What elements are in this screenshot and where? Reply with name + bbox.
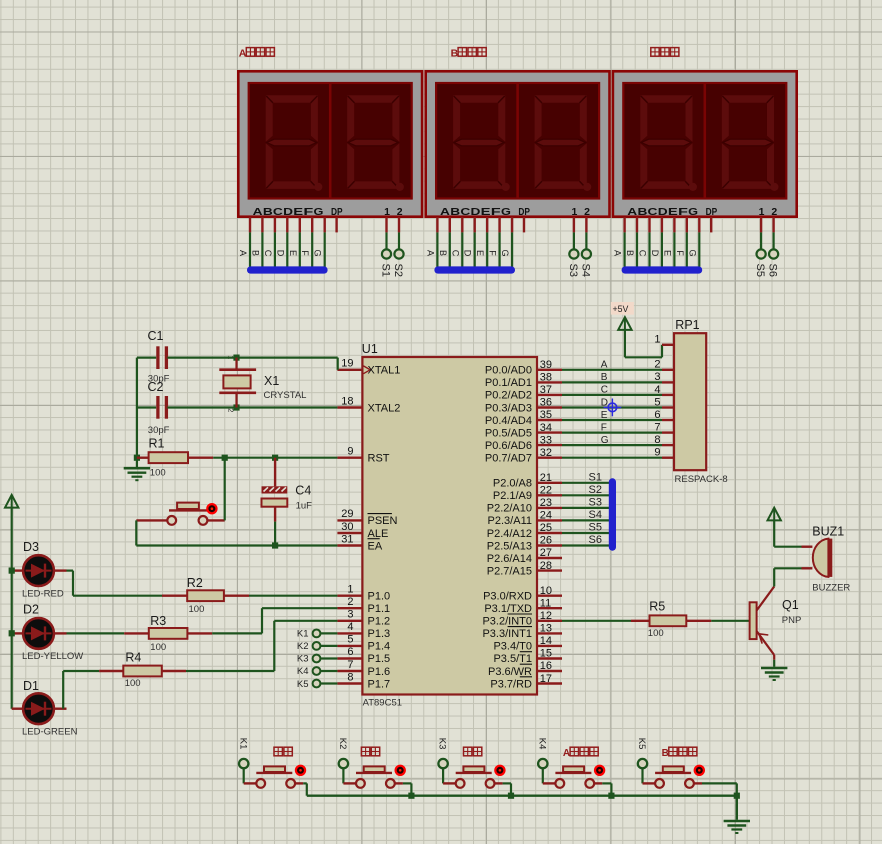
svg-text:K3: K3: [437, 738, 448, 750]
node K4 terminal: [297, 666, 338, 677]
wire RST net: [213, 455, 337, 461]
wires P0 bus to RP1 with net labels A-G: [562, 360, 662, 458]
node K2 terminal: [297, 641, 338, 652]
svg-text:P0.1/AD1: P0.1/AD1: [485, 377, 532, 389]
svg-text:C2: C2: [148, 380, 164, 394]
power +5V symbol: [611, 302, 662, 357]
op-amp U1 AT89C51 microcontroller: [337, 342, 562, 709]
svg-text:RST: RST: [368, 453, 390, 465]
svg-text:P3.5/T1: P3.5/T1: [493, 653, 532, 665]
svg-text:PSEN: PSEN: [368, 515, 398, 527]
wires P2.0-P2.5 S1-S6 to bus: [562, 471, 611, 546]
svg-text:17: 17: [540, 673, 552, 685]
capacitor C1 30pF: [148, 329, 170, 385]
svg-text:A: A: [563, 748, 570, 759]
svg-text:38: 38: [540, 372, 552, 384]
buzzer BUZ1: [802, 525, 851, 594]
svg-text:31: 31: [341, 533, 353, 545]
svg-text:26: 26: [540, 535, 552, 547]
svg-text:G: G: [601, 435, 609, 446]
svg-text:P3.2/INT0: P3.2/INT0: [482, 616, 532, 628]
svg-text:15: 15: [540, 648, 552, 660]
resistor R2 100: [162, 576, 249, 615]
wire XTAL1 net: [137, 355, 338, 370]
svg-text:D2: D2: [23, 603, 39, 617]
svg-text:K4: K4: [536, 738, 547, 750]
svg-text:8: 8: [347, 671, 353, 683]
svg-text:LED-GREEN: LED-GREEN: [22, 727, 78, 738]
svg-text:S4: S4: [580, 264, 592, 277]
push button K5 B队加分: [636, 738, 737, 796]
wire R4 to P1.2: [186, 621, 337, 671]
resistor R1 100: [137, 436, 213, 478]
svg-text:27: 27: [540, 547, 552, 559]
svg-text:10: 10: [540, 585, 552, 597]
svg-text:S1: S1: [589, 471, 602, 483]
svg-text:22: 22: [540, 485, 552, 497]
svg-text:C: C: [601, 385, 608, 396]
svg-text:S2: S2: [589, 484, 602, 496]
svg-text:XTAL1: XTAL1: [368, 365, 401, 377]
ground under Q1: [761, 660, 787, 680]
7-segment display A队成绩 display DS1: [238, 48, 422, 277]
svg-text:K1: K1: [237, 738, 248, 750]
svg-text:P2.1/A9: P2.1/A9: [493, 490, 532, 502]
svg-text:S1: S1: [380, 264, 392, 277]
svg-text:K2: K2: [337, 738, 348, 750]
LED D3 LED-RED: [12, 540, 67, 600]
svg-text:P3.4/T0: P3.4/T0: [493, 641, 532, 653]
svg-text:P3.0/RXD: P3.0/RXD: [483, 591, 532, 603]
svg-text:PNP: PNP: [782, 615, 802, 626]
svg-text:A: A: [601, 360, 608, 371]
svg-text:P1.6: P1.6: [368, 666, 391, 678]
svg-text:F: F: [601, 422, 607, 433]
svg-text:P3.3/INT1: P3.3/INT1: [482, 628, 532, 640]
svg-text:30: 30: [341, 521, 353, 533]
push button reset: [136, 503, 224, 525]
svg-text:S6: S6: [589, 534, 602, 546]
svg-text:23: 23: [540, 497, 552, 509]
svg-text:32: 32: [540, 447, 552, 459]
ground under R1: [124, 468, 150, 480]
svg-text:14: 14: [540, 635, 552, 647]
node K1 terminal: [297, 629, 338, 640]
wire R5 to Q1 base: [711, 620, 749, 622]
svg-text:29: 29: [341, 508, 353, 520]
svg-text:P0.4/AD4: P0.4/AD4: [485, 415, 532, 427]
svg-text:30pF: 30pF: [148, 425, 170, 436]
svg-text:P0.7/AD7: P0.7/AD7: [485, 453, 532, 465]
LED D1 LED-GREEN: [12, 679, 78, 738]
svg-text:18: 18: [341, 395, 353, 407]
svg-text:+5V: +5V: [613, 304, 629, 314]
svg-text:24: 24: [540, 510, 552, 522]
svg-text:P2.0/A8: P2.0/A8: [493, 478, 532, 490]
svg-text:S3: S3: [589, 497, 602, 509]
svg-text:S6: S6: [767, 264, 779, 277]
svg-text:3: 3: [347, 609, 353, 621]
cursor crosshair: [604, 399, 622, 417]
svg-text:P0.5/AD5: P0.5/AD5: [485, 427, 532, 439]
svg-text:P1.7: P1.7: [368, 678, 391, 690]
svg-text:D1: D1: [23, 679, 39, 693]
svg-text:P1.3: P1.3: [368, 628, 391, 640]
svg-text:P2.3/A11: P2.3/A11: [488, 515, 532, 527]
capacitor C2 30pF: [148, 380, 170, 436]
svg-text:R4: R4: [125, 651, 141, 665]
svg-text:U1: U1: [362, 342, 378, 356]
svg-text:21: 21: [540, 472, 552, 484]
svg-text:K4: K4: [297, 666, 309, 677]
svg-text:P0.3/AD3: P0.3/AD3: [485, 402, 532, 414]
power rail arrow (LED supply): [5, 495, 18, 709]
svg-text:BUZ1: BUZ1: [812, 525, 844, 539]
resistor R3 100: [124, 614, 212, 653]
svg-text:K5: K5: [636, 738, 647, 750]
svg-text:100: 100: [150, 642, 166, 653]
7-segment display 倒计时 display DS3: [613, 48, 797, 277]
svg-text:12: 12: [540, 610, 552, 622]
svg-text:P1.0: P1.0: [368, 591, 391, 603]
svg-text:R3: R3: [150, 614, 166, 628]
svg-text:P1.1: P1.1: [368, 603, 391, 615]
svg-text:S4: S4: [589, 509, 602, 521]
wire capacitor common to ground: [134, 358, 140, 467]
LED D2 LED-YELLOW: [12, 603, 84, 663]
wire P3.2 to R5: [562, 620, 631, 622]
svg-text:1: 1: [654, 333, 660, 345]
svg-text:XTAL2: XTAL2: [368, 402, 401, 414]
svg-text:RESPACK-8: RESPACK-8: [675, 474, 728, 485]
wire EA net: [136, 520, 337, 548]
svg-text:16: 16: [540, 660, 552, 672]
svg-text:X1: X1: [264, 374, 279, 388]
svg-text:LED-YELLOW: LED-YELLOW: [22, 651, 83, 662]
svg-text:1uF: 1uF: [296, 501, 313, 512]
svg-text:1: 1: [347, 584, 353, 596]
svg-text:100: 100: [150, 468, 166, 479]
capacitor C4 1uF: [262, 458, 313, 522]
wire bottom ground bus: [307, 793, 740, 799]
svg-text:39: 39: [540, 359, 552, 371]
svg-text:25: 25: [540, 522, 552, 534]
wire D3 to R2: [67, 571, 163, 596]
svg-text:35: 35: [540, 409, 552, 421]
svg-text:AT89C51: AT89C51: [363, 698, 402, 709]
svg-text:R2: R2: [187, 576, 203, 590]
svg-text:33: 33: [540, 434, 552, 446]
svg-text:6: 6: [347, 646, 353, 658]
svg-text:P2.7/A15: P2.7/A15: [487, 565, 532, 577]
svg-text:D: D: [601, 397, 608, 408]
7-segment display B队成绩 display DS2: [425, 48, 609, 277]
wire Q1 collector to buzzer: [774, 568, 801, 586]
svg-text:34: 34: [540, 422, 552, 434]
svg-text:P2.6/A14: P2.6/A14: [487, 553, 532, 565]
svg-text:R1: R1: [149, 436, 165, 450]
svg-text:S5: S5: [589, 522, 602, 534]
svg-text:K5: K5: [297, 679, 309, 690]
wire R2 to P1.0: [249, 595, 337, 597]
power arrow buzzer: [768, 508, 802, 547]
svg-text:C1: C1: [148, 329, 164, 343]
svg-text:P1.2: P1.2: [368, 616, 391, 628]
bus S vertical: [609, 478, 616, 550]
push button K1 开始: [237, 738, 306, 796]
svg-text:ALE: ALE: [368, 528, 389, 540]
svg-text:E: E: [601, 410, 608, 421]
svg-text:P0.0/AD0: P0.0/AD0: [485, 365, 532, 377]
svg-text:37: 37: [540, 384, 552, 396]
svg-text:7: 7: [347, 659, 353, 671]
svg-text:Q1: Q1: [782, 598, 799, 612]
svg-text:2: 2: [347, 596, 353, 608]
resistor R5 100: [631, 600, 711, 640]
svg-text:11: 11: [540, 598, 551, 610]
svg-text:RP1: RP1: [675, 318, 699, 332]
svg-text:100: 100: [125, 678, 141, 689]
svg-text:S3: S3: [567, 264, 579, 277]
wire R3 to P1.1: [212, 608, 337, 633]
svg-text:P0.2/AD2: P0.2/AD2: [485, 390, 532, 402]
resistor R4 100: [99, 651, 186, 690]
svg-text:K3: K3: [297, 654, 309, 665]
svg-text:36: 36: [540, 397, 552, 409]
wire D1 to R4: [63, 671, 99, 709]
svg-text:100: 100: [189, 604, 205, 615]
svg-text:P3.7/RD: P3.7/RD: [490, 678, 532, 690]
svg-text:CRYSTAL: CRYSTAL: [264, 390, 307, 401]
wire XTAL2 net: [137, 394, 338, 411]
node K5 terminal: [297, 679, 338, 690]
crystal X1: [219, 355, 306, 412]
svg-text:P3.6/WR: P3.6/WR: [488, 666, 532, 678]
svg-text:P2.5/A13: P2.5/A13: [487, 540, 532, 552]
svg-text:5: 5: [347, 634, 353, 646]
svg-text:EA: EA: [368, 540, 383, 552]
svg-text:P0.6/AD6: P0.6/AD6: [485, 440, 532, 452]
svg-text:4: 4: [347, 621, 353, 633]
transistor Q1 PNP: [750, 587, 802, 660]
wire D2 to R3: [67, 632, 125, 634]
push button K4 A队加分: [536, 738, 611, 796]
svg-text:P1.5: P1.5: [368, 653, 391, 665]
svg-text:S2: S2: [392, 264, 404, 277]
svg-text:B: B: [662, 748, 669, 759]
push button K2 暂停: [337, 738, 411, 796]
wire reset button to RST: [224, 458, 226, 521]
svg-text:K2: K2: [297, 641, 309, 652]
svg-text:D3: D3: [23, 540, 39, 554]
svg-text:K1: K1: [297, 629, 309, 640]
svg-text:9: 9: [347, 446, 353, 458]
svg-text:BUZZER: BUZZER: [812, 583, 850, 594]
svg-text:100: 100: [648, 628, 664, 639]
push button K3 清除: [437, 738, 511, 796]
svg-text:19: 19: [341, 358, 353, 370]
svg-text:P3.1/TXD: P3.1/TXD: [484, 603, 532, 615]
svg-text:B: B: [601, 372, 608, 383]
svg-text:R5: R5: [649, 600, 665, 614]
resistor pack RP1 RESPACK-8: [654, 318, 727, 485]
ground bottom right: [724, 796, 750, 833]
svg-text:28: 28: [540, 560, 552, 572]
svg-text:P2.2/A10: P2.2/A10: [487, 503, 532, 515]
svg-text:C4: C4: [295, 484, 311, 498]
node K3 terminal: [297, 654, 338, 665]
svg-text:LED-RED: LED-RED: [22, 589, 64, 600]
svg-text:P1.4: P1.4: [368, 641, 391, 653]
svg-text:P2.4/A12: P2.4/A12: [487, 528, 532, 540]
svg-text:13: 13: [540, 623, 552, 635]
svg-text:S5: S5: [754, 264, 766, 277]
